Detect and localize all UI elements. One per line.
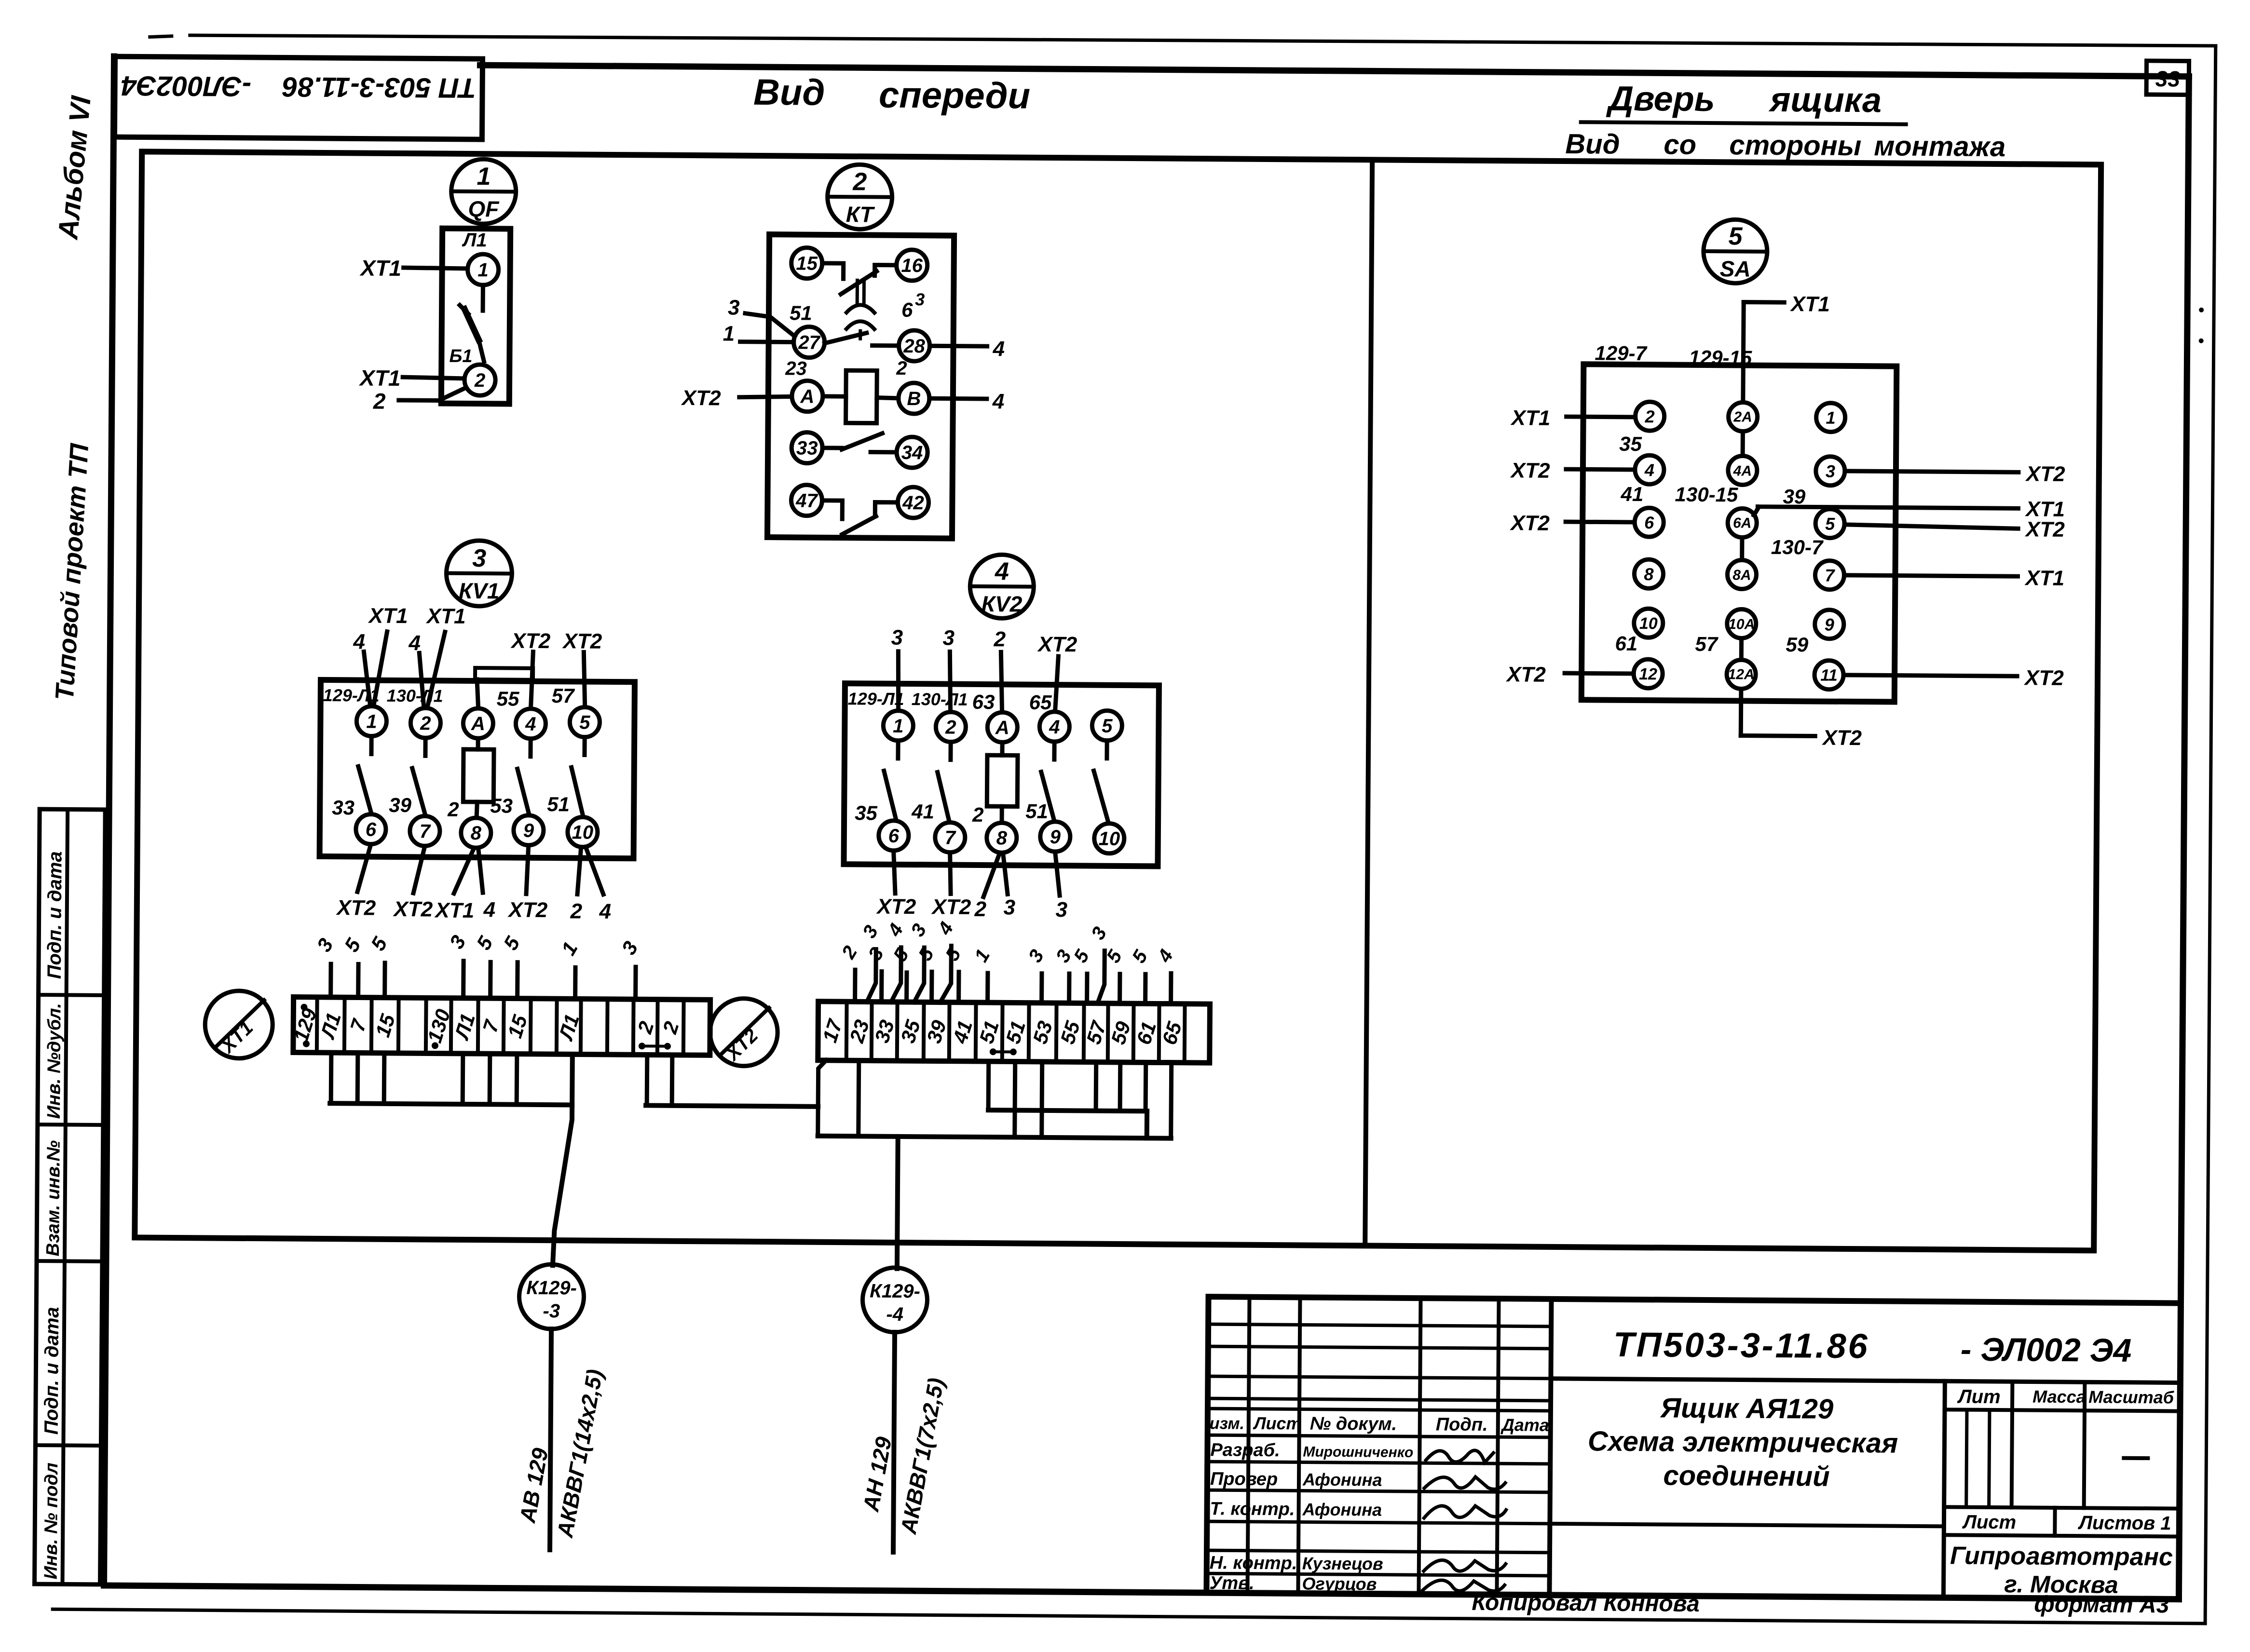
SA pin 10А [1727,609,1756,638]
KT pin 27 [793,326,824,357]
svg-text:4: 4 [1049,717,1060,738]
svg-text:16: 16 [901,255,923,276]
wire 3 to XT2 [1051,946,1076,1003]
svg-text:- ЭЛ002 Э4: - ЭЛ002 Э4 [1961,1331,2132,1369]
svg-text:ХТ2: ХТ2 [507,898,548,922]
XT1 feeder wires to bus [331,1053,517,1105]
lit subdividers [1966,1410,1990,1507]
KV2 pin А [987,712,1017,742]
KV2 pin 5 [1092,711,1122,741]
svg-text:ХТ2: ХТ2 [1036,633,1077,657]
wire 2 from KV2 pin 8 [974,853,999,921]
svg-text:Вид: Вид [1565,128,1620,160]
wire 1 to KT pin 27 [723,322,794,346]
name cell right edge [1943,1381,1945,1598]
wire 5 to XT1 [499,933,525,999]
paper top edge line [190,32,2216,49]
relay KV1 position circle (3/КV1) [446,541,512,607]
wire 1 to XT2 [970,946,994,1002]
svg-text:изм.: изм. [1210,1414,1245,1433]
wire XT2 from KV2 pin 7 [930,853,971,919]
svg-text:4: 4 [353,630,365,653]
wire XT2 from SA pin 12А [1741,689,1862,750]
svg-text:5: 5 [1728,222,1743,250]
underline of Дверь ящика [1581,122,1906,124]
svg-text:41: 41 [1620,483,1643,505]
wire 5 to XT2 [1128,947,1152,1004]
svg-text:28: 28 [903,336,926,357]
wire 4 from KV1 pin 8 [478,848,496,921]
svg-text:5: 5 [579,712,590,733]
frame top border [480,65,2189,76]
svg-text:2: 2 [896,358,907,379]
svg-text:5: 5 [1825,514,1835,534]
svg-text:Кузнецов: Кузнецов [1302,1553,1383,1573]
cable K129-4 line [893,1332,895,1552]
svg-text:2: 2 [570,899,582,923]
wire XT2 to KV2 pin 4 [1036,633,1077,712]
wire 5 to XT2 [1102,946,1126,1003]
wire XT1 from KV1 pin 8 [434,848,475,923]
svg-text:51: 51 [790,301,812,324]
paper bottom edge [53,1609,2205,1624]
svg-text:К129-: К129- [526,1277,577,1299]
svg-text:2: 2 [1645,406,1655,426]
wire XT2 from SA pin 11 [1843,665,2064,690]
svg-text:23: 23 [785,358,807,379]
svg-text:Масштаб: Масштаб [2088,1387,2175,1407]
svg-text:2: 2 [373,389,386,414]
wire XT1 to QF pin 2 [358,365,464,391]
QF pin 1 [467,254,498,285]
svg-text:7: 7 [945,827,956,849]
svg-text:Афонина: Афонина [1302,1469,1382,1490]
KV1 pin 2 [410,708,440,738]
svg-text:129-7: 129-7 [1595,341,1647,365]
svg-text:9: 9 [1825,615,1834,635]
svg-text:ХТ1: ХТ1 [358,365,401,391]
KV2 pin 6 [879,821,909,851]
wire XT2 to SA pin 4 [1510,459,1634,483]
svg-text:Разраб.: Разраб. [1210,1440,1280,1461]
bus segment from XT1 to XT2 bus [646,1105,818,1106]
svg-text:1: 1 [477,259,489,281]
KT pin B [899,383,929,414]
svg-text:6: 6 [366,819,377,840]
svg-text:1: 1 [366,711,377,732]
svg-text:5: 5 [1102,716,1113,737]
svg-text:В: В [907,388,921,409]
Лист / Листов 1 [1962,1507,2171,1537]
svg-text:ХТ1: ХТ1 [425,604,466,628]
wire 4 to XT2 [933,919,958,1002]
KV1 pin 8 [461,818,491,848]
KV2 coil [987,742,1018,822]
svg-text:ТП 503-3-11.86 -ЭЛ002Э4: ТП 503-3-11.86 -ЭЛ002Э4 [121,70,477,104]
wire 3 to XT2 [858,922,882,1002]
svg-text:33: 33 [332,796,355,819]
svg-text:33: 33 [2155,66,2181,91]
KV1 body box [320,680,635,858]
QF switch blade [459,305,484,361]
KV1 jumper A to 4 [475,668,533,708]
svg-text:1: 1 [477,162,491,190]
SA link 6А-8А [1740,537,1744,560]
svg-text:3: 3 [915,289,925,309]
svg-text:спереди: спереди [879,75,1031,117]
KV1 contact 4-9 [517,739,531,815]
svg-text:Дата: Дата [1500,1415,1549,1435]
SA link 2А-4А [1741,431,1745,456]
svg-text:формат А3: формат А3 [2034,1592,2169,1618]
svg-text:ХТ2: ХТ2 [335,896,376,920]
KV2 pin 7 [935,822,965,852]
SA pin 11 [1814,660,1843,689]
SA pin 12 [1634,659,1663,688]
svg-text:КV2: КV2 [982,591,1023,617]
wire XT2 to KV1 pin 4 [510,629,551,707]
svg-text:Копировал Коннова: Копировал Коннова [1472,1590,1700,1617]
svg-text:ХТ2: ХТ2 [510,629,551,653]
KT contact 27-28 [825,333,898,346]
svg-text:10: 10 [1639,614,1658,633]
svg-text:ХТ2: ХТ2 [930,895,971,919]
wire 3 to KV2 pin 1 [891,626,903,710]
SA pin 2А [1728,402,1757,431]
KT time-delay linkage [846,280,875,339]
svg-text:монтажа: монтажа [1874,130,2005,162]
QF body box [441,229,510,404]
svg-text:42: 42 [902,492,924,514]
KV1 pin 1 [356,706,386,736]
terminal strip XT1 body [293,997,710,1056]
wire 4 from KV1 pin 10 [586,848,612,923]
SA pin 2 [1635,402,1664,431]
svg-text:33: 33 [796,437,818,459]
XT1 marking dots [300,1004,671,1051]
svg-text:№ докум.: № докум. [1310,1414,1397,1435]
KT label 63 [901,289,925,321]
XT2 jumper dots 51-51 [990,1048,1017,1055]
svg-text:Инв. №дубл.: Инв. №дубл. [44,1003,65,1119]
svg-text:Ящик АЯ129: Ящик АЯ129 [1660,1392,1834,1424]
wire XT1 from SA pin 7 [1844,565,2064,590]
wire XT2 to SA pin 12 [1505,663,1634,687]
KT coil leads [823,396,899,398]
svg-text:12А: 12А [1728,666,1754,682]
svg-text:Листов 1: Листов 1 [2077,1512,2171,1534]
wire 4 to KV1 pin 2 [408,631,424,706]
wire 5 to XT2 [889,945,913,1002]
SA pin 1 [1816,403,1845,432]
svg-text:ТП503-3-11.86: ТП503-3-11.86 [1613,1326,1869,1366]
wire 5 to XT2 [1069,946,1093,1003]
svg-text:1: 1 [723,322,735,345]
svg-text:35: 35 [855,801,878,824]
divider between panel and door views [1365,160,1372,1246]
wire 2 to KV2 pin A [993,627,1006,712]
svg-text:6А: 6А [1733,515,1752,531]
svg-text:3: 3 [1003,895,1015,919]
KV2 pin 10 [1094,824,1124,853]
reference dots right margin [2199,308,2204,343]
svg-text:6: 6 [888,826,900,847]
terminal strip XT2 body [818,1002,1210,1063]
KT pin 42 [898,487,928,518]
svg-text:3: 3 [1826,461,1835,481]
svg-text:34: 34 [901,442,923,463]
svg-text:8: 8 [996,827,1008,849]
wire XT2 to KT pin A [681,386,792,411]
wire 3 to KV2 pin 2 [942,626,955,712]
wire 5 to XT2 [914,944,938,1002]
KT body box [767,234,954,539]
svg-text:3: 3 [472,544,486,572]
svg-text:4: 4 [992,337,1005,361]
svg-text:соединений: соединений [1663,1460,1830,1492]
svg-text:-4: -4 [886,1304,903,1325]
svg-text:4: 4 [995,557,1009,585]
lit-massa-masshtab header [1944,1381,2181,1508]
svg-text:8: 8 [1644,564,1653,584]
inverted filing stamp box [114,56,482,139]
svg-text:КТ: КТ [846,202,875,227]
svg-text:ХТ2: ХТ2 [561,629,602,653]
paper right edge [2205,46,2216,1624]
KT pin 33 [791,432,822,463]
svg-text:Инв. № подл: Инв. № подл [41,1462,62,1579]
drop wire to K129-4 [897,1137,898,1269]
svg-text:QF: QF [468,196,500,221]
svg-text:55: 55 [497,687,520,710]
svg-text:ХТ2: ХТ2 [1505,663,1546,687]
svg-text:Вид: Вид [753,72,825,113]
wire 4 to KV1 pin 1 [353,630,371,705]
wire XT1 to KV1 pin 2 [425,604,466,706]
XT2 feeder wires to bus [818,1060,1172,1138]
svg-text:Дверь: Дверь [1606,80,1715,119]
svg-text:А: А [995,717,1009,738]
wire 3 to XT2 [1024,946,1048,1003]
wire XT1 from SA pin 6А [1754,496,2065,521]
svg-text:Афонина: Афонина [1302,1499,1382,1519]
svg-text:130-Л1: 130-Л1 [387,686,443,706]
KV2 pin 8 [987,823,1017,853]
svg-text:Лист: Лист [1253,1413,1302,1434]
svg-text:Н. контр.: Н. контр. [1210,1553,1297,1573]
svg-text:Схема электрическая: Схема электрическая [1588,1425,1898,1459]
svg-text:9: 9 [523,820,534,841]
svg-text:9: 9 [1050,826,1061,848]
paper top edge dash [150,36,172,37]
SA pin 3 [1816,457,1845,486]
SA pin 10 [1634,609,1663,637]
KV2 contact 5-10 [1093,741,1109,823]
KV1 pin 4 [516,709,545,739]
QF pin 2 [464,365,495,395]
svg-text:47: 47 [795,490,818,511]
svg-text:2: 2 [474,370,486,391]
SA pin 12А [1727,660,1756,689]
KT coil [846,370,877,423]
KV1 pin 10 [568,817,598,847]
svg-text:1: 1 [1826,408,1835,428]
circuit breaker QF position circle (1/QF) [451,159,516,224]
svg-text:59: 59 [1786,633,1809,656]
name cell bottom line [1550,1524,1944,1526]
masshtab dash [2124,1456,2148,1460]
SA pin 6 [1635,508,1664,537]
svg-text:ХТ2: ХТ2 [875,895,916,919]
svg-text:Масса: Масса [2032,1387,2086,1407]
wire 3 to XT1 [445,931,470,998]
svg-text:4: 4 [408,631,421,655]
svg-text:ХТ1: ХТ1 [1510,406,1550,430]
svg-text:10: 10 [1098,828,1120,850]
designation cell bottom line [1551,1379,2180,1383]
KV2 pin 2 [936,712,966,742]
relay KV2 position circle (4/КV2) [970,555,1034,619]
svg-text:3: 3 [891,626,903,650]
cable marker K129-3 [519,1264,584,1329]
KV1 pin 9 [514,815,544,845]
main enclosure outline (вид спереди panel) [135,151,2101,1250]
svg-text:4: 4 [525,714,536,735]
svg-text:57: 57 [552,684,575,707]
title: Вид спереди [753,72,1031,117]
svg-text:ХТ2: ХТ2 [1509,511,1550,535]
SA body box [1582,364,1897,702]
svg-text:65: 65 [1029,691,1052,714]
svg-text:4: 4 [599,900,611,923]
terminal strip XT2 designator circle [710,998,778,1066]
wire 3 to XT2 [906,920,930,1002]
svg-text:3: 3 [1055,898,1067,921]
svg-text:ХТ1: ХТ1 [434,899,474,923]
svg-text:Подп. и дата: Подп. и дата [44,851,66,979]
svg-text:8А: 8А [1732,567,1751,583]
svg-text:ХТ2: ХТ2 [392,897,433,921]
svg-text:Лист: Лист [1962,1512,2016,1533]
title block rows left table [1207,1324,1551,1576]
wire XT1 from top to SA pin 2А [1743,292,1830,402]
svg-text:6: 6 [1644,513,1654,532]
SA pin 4А [1728,456,1757,485]
svg-text:2: 2 [972,803,984,826]
wire 4 from KT pin 28 [929,337,1005,361]
KV2 body box [844,683,1159,866]
XT1 feeders from cells 2,2 [647,1055,672,1105]
wire XT2 to SA pin 6 [1509,511,1633,536]
svg-text:10А: 10А [1728,616,1755,632]
KT contact 33-34 [822,433,896,452]
row Н. контр. [1210,1553,1506,1575]
wire XT2 from KV2 pin 6 [875,851,916,919]
KT pin A [792,380,823,411]
svg-text:51: 51 [547,793,570,815]
SA link 10А-12А [1739,638,1744,660]
wire XT2 from KV1 pin 7 [392,846,433,921]
title block outline [1206,1297,2181,1599]
KV1 pin 6 [356,814,386,844]
SA pin 7 [1815,560,1844,589]
row Утв. [1209,1573,1504,1595]
svg-text:ящика: ящика [1768,81,1882,120]
svg-text:ХТ2: ХТ2 [2023,666,2064,690]
frame left border [104,56,114,1585]
wire 1 to XT1 [557,938,582,999]
svg-text:15: 15 [796,253,818,274]
svg-text:11: 11 [1820,666,1838,685]
QF internal wire from pin 1 [481,285,485,311]
svg-text:Взам. инв.№: Взам. инв.№ [43,1140,64,1257]
svg-text:ХТ2: ХТ2 [681,386,722,410]
svg-text:со: со [1664,129,1696,160]
svg-text:2: 2 [420,713,431,734]
KT pin 16 [896,250,927,281]
row Разраб. [1210,1440,1493,1462]
frame right border [2179,77,2189,1599]
svg-text:ХТ1: ХТ1 [1789,292,1830,316]
KV2 contact 1-6 [884,741,898,820]
SA pin 8 [1634,559,1663,588]
svg-text:41: 41 [911,800,934,823]
svg-text:35: 35 [1619,433,1642,455]
wire 3 to XT2 [864,944,888,1002]
KT timed contact 15-16 [822,263,896,295]
bus to cable K129-4 [818,1136,1171,1138]
SA pin 4 [1635,455,1664,484]
wire XT2 from SA pin 5 [1844,516,2065,542]
wire XT1 to KV1 pin 1 [367,604,408,706]
svg-text:12: 12 [1639,665,1657,683]
wire XT2 from KV1 pin 6 [335,844,376,920]
frame bottom border [104,1585,2179,1599]
switch SA position circle (5/SА) [1703,219,1767,284]
SA pin 9 [1815,609,1844,638]
KV1 pin 5 [570,707,600,737]
svg-text:Подп. и дата: Подп. и дата [41,1307,63,1435]
svg-text:8: 8 [471,823,482,844]
KV2 pin 9 [1040,822,1070,852]
svg-text:КV1: КV1 [459,578,500,604]
KV1 contact 1-6 [358,736,372,813]
svg-text:ХТ2: ХТ2 [1821,726,1862,750]
cable K129-3 line [550,1329,551,1550]
svg-text:7: 7 [1825,566,1835,585]
svg-text:10: 10 [572,822,593,843]
list row line [1944,1507,2180,1508]
wire 4 to XT2 [883,920,908,1002]
wire 5 to XT1 [472,932,498,998]
terminal strip XT1 designator circle [205,990,273,1058]
svg-text:Провер: Провер [1210,1469,1278,1490]
wire XT2 from SA pin 3 [1845,461,2066,486]
svg-text:ХТ1: ХТ1 [359,255,401,281]
margin cell stack [35,809,106,1584]
svg-text:К129-: К129- [870,1281,920,1302]
svg-text:стороны: стороны [1729,129,1861,162]
svg-text:3: 3 [942,626,955,650]
SA pin 6А [1728,508,1757,537]
KV2 pin 1 [883,711,913,741]
KV1 pin А [463,708,493,738]
sheet number box top right [2146,61,2189,95]
svg-text:63: 63 [972,691,995,713]
svg-text:Л1: Л1 [462,230,487,251]
svg-text:130-15: 130-15 [1675,483,1738,506]
wire 2 to QF pin 2 [373,388,465,414]
